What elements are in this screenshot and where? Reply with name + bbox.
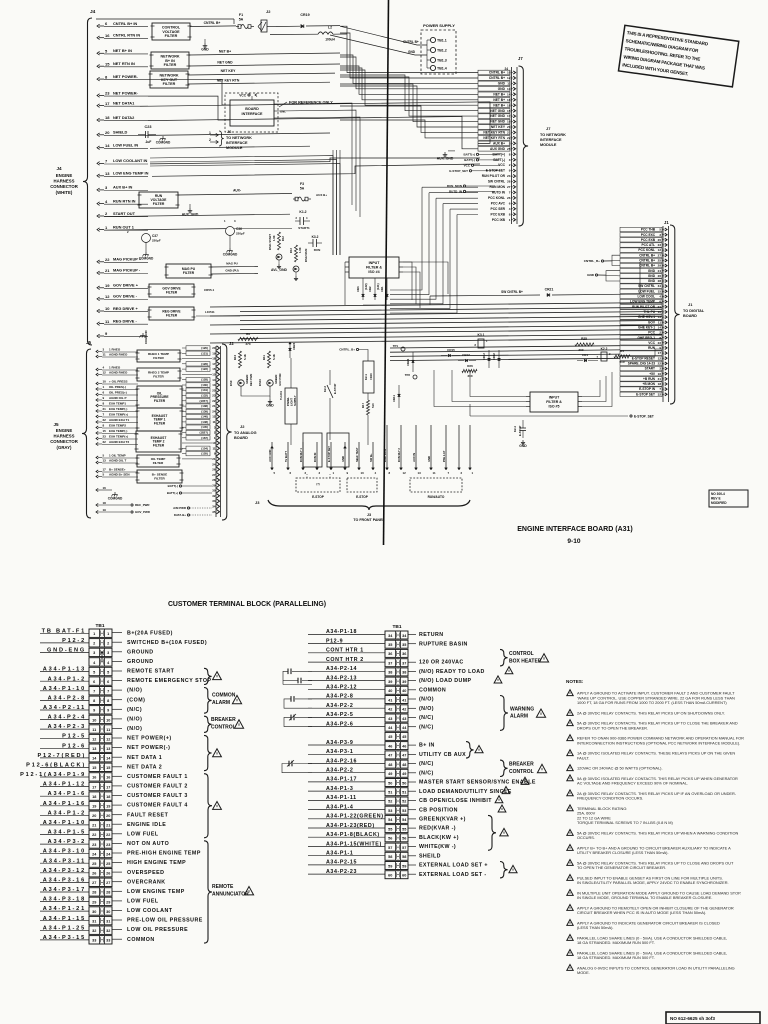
svg-text:FILTER: FILTER [154, 476, 165, 480]
svg-text:7: 7 [107, 690, 109, 694]
inductor L2 [270, 33, 318, 35]
ground AUX GND at J7 [448, 150, 455, 152]
TB1 terminal 14 NET DATA 1 [89, 754, 112, 762]
svg-text:(148): (148) [201, 420, 208, 424]
svg-text:16: 16 [105, 33, 110, 38]
svg-text:AGND RHEO: AGND RHEO [109, 353, 128, 357]
svg-text:AUX_GND: AUX_GND [437, 157, 454, 161]
svg-text:R25: R25 [581, 337, 587, 341]
svg-text:NET B+ IN: NET B+ IN [113, 48, 132, 53]
TB1 terminal 45 terminal [385, 732, 408, 740]
svg-text:NET KEY RTN: NET KEY RTN [483, 131, 505, 135]
svg-text:CONTROL: CONTROL [509, 651, 534, 657]
wire NET POWER 23 to board interface pin [148, 96, 226, 120]
svg-text:30: 30 [92, 910, 96, 914]
wire LOW COOLANT run [150, 158, 480, 164]
svg-text:CB POSITION: CB POSITION [419, 807, 458, 813]
svg-text:9: 9 [93, 709, 95, 713]
svg-text:GREEN: GREEN [274, 375, 278, 384]
left table group brace rows 5-6 [204, 668, 212, 684]
svg-text:9: 9 [509, 169, 511, 173]
svg-text:CUSTOMER FAULT 4: CUSTOMER FAULT 4 [127, 803, 188, 809]
TB1 terminal 6 REMOTE EMERGENCY STOP [89, 677, 112, 685]
J3 underbrace [268, 500, 470, 510]
svg-text:22: 22 [105, 257, 110, 262]
svg-text:ALARM: ALARM [212, 700, 230, 706]
svg-text:3: 3 [93, 651, 95, 655]
svg-text:16: 16 [212, 367, 216, 371]
svg-text:LOW FUEL: LOW FUEL [638, 289, 655, 293]
svg-text:NET DATA1: NET DATA1 [113, 100, 135, 105]
LED DS10 GOV PWR [267, 380, 273, 386]
J4 pin 21 MAG PICKUP - [97, 271, 100, 275]
contact symbol rows 41-42 NO [295, 698, 312, 700]
svg-text:ISO #4: ISO #4 [368, 270, 379, 274]
svg-text:LOW ENG TEMP: LOW ENG TEMP [630, 300, 656, 304]
svg-text:J5: J5 [53, 422, 59, 427]
svg-text:45: 45 [388, 735, 392, 739]
svg-text:40: 40 [388, 689, 392, 693]
svg-text:PCC SER: PCC SER [491, 207, 506, 211]
svg-text:R4: R4 [620, 349, 624, 353]
svg-text:CNTRL B+ IN: CNTRL B+ IN [113, 21, 137, 26]
svg-text:32: 32 [212, 494, 216, 498]
note 15 [567, 905, 573, 911]
svg-text:SW B+: SW B+ [369, 453, 373, 462]
svg-text:10: 10 [361, 471, 365, 475]
svg-text:GND: GND [341, 456, 345, 462]
svg-text:6: 6 [107, 680, 109, 684]
svg-text:CUSTOMER TERMINAL BLOCK (PARAL: CUSTOMER TERMINAL BLOCK (PARALLELING) [168, 601, 326, 608]
J4 pin 9 COMGND [97, 334, 100, 338]
svg-text:(138): (138) [201, 404, 208, 408]
svg-text:18: 18 [658, 382, 662, 386]
svg-text:R12: R12 [281, 236, 285, 241]
TB1 terminal 15 NET DATA 2 [89, 763, 112, 771]
svg-text:WARNING: WARNING [510, 706, 534, 712]
svg-text:28: 28 [212, 478, 216, 482]
svg-text:11: 11 [92, 728, 96, 732]
svg-text:21: 21 [92, 824, 96, 828]
J1 pin 2 PCC [620, 330, 662, 334]
svg-text:22: 22 [103, 440, 107, 444]
svg-text:MODE.: MODE. [577, 970, 590, 975]
svg-text:REG DRIVE +: REG DRIVE + [113, 306, 138, 311]
svg-text:K2.3: K2.3 [323, 386, 327, 392]
svg-text:16: 16 [92, 776, 96, 780]
svg-text:CIRCUIT BREAKER WHEN PCC IS IN: CIRCUIT BREAKER WHEN PCC IS IN AUTO MODE… [577, 910, 706, 915]
svg-text:ANALOG 0-9VDC INPUTS TO CONTRO: ANALOG 0-9VDC INPUTS TO CONTROL GENERATO… [577, 965, 735, 970]
svg-text:J2: J2 [240, 424, 245, 429]
svg-text:PANEL: PANEL [286, 397, 290, 406]
note 2 [567, 710, 573, 716]
J3 pin 7 PNL LGT [445, 425, 447, 468]
note 11 [567, 845, 573, 851]
J3 pin 8 DISP RUN [386, 425, 388, 468]
arrow up AUX GND [271, 446, 274, 448]
svg-text:J6: J6 [227, 130, 231, 134]
svg-text:A/M PWR: A/M PWR [173, 506, 187, 510]
resistor R10 5.1K [239, 351, 242, 368]
J5 pin 9 AGND OIL P [96, 399, 98, 402]
TB1 terminal 37 120 OR 240VAC [385, 659, 408, 667]
svg-text:DROPS OUT TO OPEN THE BREAKER.: DROPS OUT TO OPEN THE BREAKER. [577, 725, 648, 730]
svg-text:5A: 5A [239, 18, 244, 22]
J7 pin 14 NET B+ [478, 92, 510, 97]
svg-text:59: 59 [388, 864, 392, 868]
TB1 terminal 30 LOW COOLANT [89, 907, 112, 915]
svg-text:25: 25 [507, 147, 511, 151]
triangle row53 [498, 805, 506, 812]
svg-text:RUN RTN IN: RUN RTN IN [113, 198, 136, 203]
svg-text:GND: GND [587, 273, 595, 277]
svg-text:HIGH ENGINE TEMP: HIGH ENGINE TEMP [127, 860, 186, 866]
svg-text:E-STOP SET: E-STOP SET [636, 392, 655, 396]
svg-text:DS9: DS9 [229, 380, 233, 386]
svg-text:POWER SUPPLY: POWER SUPPLY [423, 23, 455, 28]
svg-text:RUPTURE BASIN: RUPTURE BASIN [419, 641, 468, 647]
svg-text:FILTER &: FILTER & [546, 400, 562, 404]
svg-text:BATT(+): BATT(+) [167, 491, 178, 495]
bus wires second group [390, 346, 620, 348]
label FOR REFERENCE ONLY [279, 102, 287, 107]
svg-text:12: 12 [507, 76, 511, 80]
svg-text:E-STOP_SET: E-STOP_SET [634, 415, 654, 419]
TB1 terminal 60 EXTERNAL LOAD SET - [385, 871, 408, 879]
svg-text:AGND EXH T1: AGND EXH T1 [109, 418, 130, 422]
svg-text:B+(20A FUSED): B+(20A FUSED) [127, 630, 173, 636]
svg-text:L2: L2 [328, 26, 332, 30]
svg-text:ENGINE INTERFACE BOARD (A31): ENGINE INTERFACE BOARD (A31) [517, 526, 633, 533]
filter CONTROL VOLTAGE FILTER [152, 23, 190, 40]
svg-text:REMOTE START: REMOTE START [127, 669, 175, 675]
svg-text:38: 38 [402, 671, 406, 675]
svg-text:18: 18 [212, 357, 216, 361]
svg-text:CR16: CR16 [369, 373, 373, 380]
svg-text:AUX GND: AUX GND [268, 450, 272, 462]
svg-text:TB1.1: TB1.1 [437, 38, 447, 42]
svg-text:UTILITY CB AUX: UTILITY CB AUX [419, 752, 466, 758]
TB1 terminal 43 (N/C) [385, 714, 408, 722]
svg-text:2: 2 [509, 163, 511, 167]
J3 pin 3 RUN IN [316, 442, 318, 468]
svg-text:53: 53 [402, 809, 406, 813]
note 1 [567, 690, 573, 696]
svg-text:11: 11 [433, 471, 436, 475]
note 17 [567, 935, 573, 941]
svg-text:26: 26 [507, 196, 511, 200]
svg-text:K3.2: K3.2 [312, 235, 319, 239]
svg-text:10: 10 [106, 718, 110, 722]
svg-text:NO 612-6625 sh 3of3: NO 612-6625 sh 3of3 [670, 1016, 715, 1021]
J1 pin 3 START [620, 366, 662, 370]
wire panel light vertical [290, 358, 292, 388]
svg-text:25: 25 [92, 862, 96, 866]
fold line dark vertical [384, 0, 389, 545]
J7 pin 15 NET GND [478, 108, 510, 113]
wire NET KEY RTN out [188, 82, 330, 84]
svg-text:TP2: TP2 [405, 373, 411, 377]
dashed box E-STOP 1 [296, 478, 340, 492]
diode CR12 vertical [488, 350, 490, 368]
J1 pin 12 PCC KONL [620, 248, 662, 252]
svg-text:23: 23 [105, 91, 110, 96]
svg-text:9-10: 9-10 [567, 538, 581, 545]
resistor R9 270 [238, 337, 258, 340]
svg-text:EXH TEMP2: EXH TEMP2 [109, 424, 126, 428]
svg-text:(COM): (COM) [127, 697, 145, 703]
svg-text:6: 6 [509, 201, 511, 205]
svg-text:(N/C): (N/C) [419, 761, 434, 767]
svg-text:10: 10 [658, 310, 662, 314]
svg-text:NET B+: NET B+ [493, 92, 505, 96]
svg-text:32: 32 [658, 392, 662, 396]
svg-text:1.0K: 1.0K [272, 235, 276, 241]
right table brace rows 36-37 [500, 649, 508, 666]
svg-text:FILTER &: FILTER & [366, 266, 382, 270]
svg-text:PCC AVC: PCC AVC [491, 201, 506, 205]
J4 pin 15 NET RTN IN [97, 64, 100, 68]
svg-text:CR82: CR82 [492, 353, 496, 360]
J5 pin 8 EXH TEMP1 [96, 404, 98, 407]
J3 pin 5 AUX GND [271, 442, 273, 468]
svg-text:20: 20 [212, 346, 216, 350]
J3 pin 1 wire [469, 425, 471, 468]
svg-text:TB1.2: TB1.2 [437, 48, 447, 52]
J3 pin 11 GND [430, 425, 432, 468]
svg-text:48: 48 [402, 763, 406, 767]
svg-text:CNTRL B+: CNTRL B+ [489, 76, 505, 80]
svg-text:RUN PILOT OR: RUN PILOT OR [482, 174, 506, 178]
wire NET GND out [189, 64, 340, 66]
svg-text:(N/C): (N/C) [127, 707, 142, 713]
diode CR11 vertical [398, 385, 400, 408]
note 13 [567, 875, 573, 881]
right table brace rows 48-49 [500, 760, 508, 776]
svg-text:23: 23 [658, 243, 662, 247]
J1 pin 3 PCC EXC [620, 233, 662, 237]
svg-text:LOW COOLANT IN: LOW COOLANT IN [113, 158, 148, 163]
J3 pin 6 5V BATT [287, 442, 289, 468]
wire LOW FUEL run [150, 146, 310, 148]
svg-text:BATT(-): BATT(-) [464, 158, 475, 162]
svg-text:PCC KONL: PCC KONL [488, 196, 505, 200]
TB1 terminal 35 RUPTURE BASIN [385, 640, 408, 648]
svg-text:RUN/AUTO: RUN/AUTO [428, 495, 445, 499]
svg-text:CNTRL B+: CNTRL B+ [639, 259, 655, 263]
svg-text:28: 28 [507, 180, 511, 184]
svg-text:FILTER: FILTER [153, 444, 165, 448]
svg-text:1.0K: 1.0K [298, 247, 302, 253]
J1 pin 32 E-STOP SET [620, 392, 662, 396]
TB1 terminal 46 B+ IN [385, 742, 408, 750]
svg-text:21: 21 [103, 407, 107, 411]
J2 brace [222, 344, 232, 520]
svg-text:CONNECTOR: CONNECTOR [50, 439, 79, 444]
svg-text:C37: C37 [152, 234, 158, 238]
svg-text:B+ IN: B+ IN [419, 743, 435, 749]
svg-text:RUN OUT 1: RUN OUT 1 [113, 224, 135, 229]
svg-text:22: 22 [507, 136, 511, 140]
svg-text:AGND RHEO: AGND RHEO [109, 371, 128, 375]
svg-text:17: 17 [106, 785, 110, 789]
svg-text:29: 29 [212, 483, 216, 487]
svg-text:26: 26 [106, 872, 110, 876]
TB1 terminal 38 (N/O) READY TO LOAD [385, 668, 408, 676]
svg-text:12: 12 [658, 248, 662, 252]
wire NET POWER to board interface pin [148, 80, 226, 105]
filter OIL TEMP FILTER [137, 455, 179, 467]
svg-text:7: 7 [509, 191, 511, 195]
svg-text:NET POWER-: NET POWER- [113, 74, 139, 79]
svg-text:22: 22 [212, 399, 216, 403]
svg-text:AUX B+: AUX B+ [316, 193, 327, 197]
svg-text:2: 2 [107, 642, 109, 646]
svg-text:510: 510 [619, 360, 624, 364]
note 3 [567, 720, 573, 726]
svg-text:35: 35 [212, 510, 216, 514]
note 9 [567, 805, 573, 811]
svg-text:11: 11 [106, 728, 110, 732]
J1 pin 16 +5V [620, 372, 662, 376]
svg-text:BREAKER: BREAKER [509, 762, 534, 768]
svg-text:CONNECTOR: CONNECTOR [50, 184, 79, 189]
svg-text:FILTER: FILTER [166, 291, 178, 295]
svg-text:7: 7 [93, 690, 95, 694]
svg-text:1 RHEO: 1 RHEO [109, 366, 121, 370]
svg-text:COMGND: COMGND [144, 330, 148, 344]
svg-text:LOW COOL: LOW COOL [637, 295, 655, 299]
svg-text:13: 13 [507, 87, 511, 91]
J4 pin 14 LOW FUEL IN [97, 146, 100, 150]
svg-text:26: 26 [658, 274, 662, 278]
J4 pin 7 LOW COOLANT IN [97, 162, 100, 166]
svg-text:5: 5 [509, 142, 511, 146]
svg-text:12: 12 [658, 356, 662, 360]
right table brace rows 41-44 [500, 696, 508, 731]
svg-text:(155): (155) [201, 452, 208, 456]
J1 brace [670, 225, 680, 404]
TB1 terminal 50 MASTER START SENSOR/SYNC ENABLE [385, 779, 408, 787]
wire SHIELD run [148, 133, 330, 135]
test point TP1 [401, 347, 405, 351]
svg-text:K2.4: K2.4 [513, 426, 517, 432]
svg-text:ENGINE: ENGINE [56, 173, 73, 178]
svg-text:20: 20 [106, 814, 110, 818]
svg-text:18: 18 [103, 501, 107, 505]
svg-text:5: 5 [93, 670, 95, 674]
svg-text:GOV PWR: GOV PWR [278, 373, 282, 386]
svg-text:(139): (139) [201, 409, 208, 413]
svg-text:1 RHEO: 1 RHEO [109, 348, 121, 352]
TB1 terminal 23 NOT ON AUTO [89, 840, 112, 848]
svg-text:GND: GND [498, 82, 506, 86]
svg-text:(GRAY): (GRAY) [57, 445, 72, 450]
J1 pin 25 CNTRL B+ [620, 258, 662, 262]
svg-text:FILTER: FILTER [153, 202, 165, 206]
J1 pin 31 +B RUN [620, 377, 662, 381]
svg-text:31: 31 [92, 919, 96, 923]
svg-text:BLACK(KW +): BLACK(KW +) [419, 835, 459, 841]
J5 pin 12 AGND RHEO [96, 373, 98, 376]
svg-text:CR17: CR17 [462, 353, 470, 357]
svg-text:53: 53 [388, 809, 392, 813]
J5 pin 17 B+ SENSE+ [96, 470, 98, 473]
svg-text:.1uF: .1uF [145, 140, 152, 144]
svg-text:(182?): (182?) [199, 431, 208, 435]
J3 pin 13 AUX IN [415, 425, 417, 468]
svg-text:DS11 START: DS11 START [268, 234, 272, 250]
J7 pin 10 CNTRL B+ [478, 70, 510, 75]
svg-text:BATT(+): BATT(+) [463, 153, 475, 157]
svg-text:INTERCONNECTION INSTRUCTIONS (: INTERCONNECTION INSTRUCTIONS (OPTIONAL P… [577, 740, 740, 745]
filter EXHAUST TEMP 2 FILTER [136, 431, 181, 452]
TB1 terminal 52 CB OPEN/CLOSE INHIBIT [385, 797, 408, 805]
J1 pin 21 RUN PILOT OR [620, 305, 662, 309]
filter RHEO 1 TEMP FILTER [137, 350, 180, 362]
TB1 terminal 5 REMOTE START [89, 667, 112, 675]
svg-text:17: 17 [92, 785, 96, 789]
svg-text:START: START [645, 367, 655, 371]
mag pickup filter [166, 264, 211, 278]
ground COMGND below C36 [229, 248, 231, 251]
svg-text:AUX B+: AUX B+ [493, 142, 505, 146]
svg-text:56: 56 [388, 837, 392, 841]
svg-text:19: 19 [507, 120, 511, 124]
svg-text:41: 41 [402, 698, 406, 702]
wire gnd pu out [211, 272, 258, 275]
svg-text:(145): (145) [201, 425, 208, 429]
svg-text:23: 23 [103, 435, 107, 439]
svg-text:(120): (120) [201, 346, 208, 350]
svg-text:CR23: CR23 [292, 342, 296, 350]
svg-text:34: 34 [658, 284, 662, 288]
svg-text:RUN PILOT OR: RUN PILOT OR [632, 305, 656, 309]
svg-text:21: 21 [212, 404, 216, 408]
J3 pin 9 GND [344, 442, 346, 468]
svg-text:CNTRL_B+: CNTRL_B+ [339, 348, 355, 352]
svg-text:F1: F1 [239, 13, 243, 17]
TB1 terminal 12 NET POWER(+) [89, 734, 112, 742]
J4 pin 8 NET POWER- [97, 77, 100, 81]
svg-text:EXH TEMP1: EXH TEMP1 [109, 402, 126, 406]
svg-text:11: 11 [103, 353, 107, 357]
J1 pin 6 LOW ENG TEMP [620, 299, 662, 303]
svg-text:TO FRONT PANEL: TO FRONT PANEL [353, 518, 385, 522]
wire SW CNTRL B+ with diode CR21 [430, 295, 540, 296]
svg-text:OIL PRES(+): OIL PRES(+) [109, 391, 127, 395]
left table group brace rows 16-22 [204, 774, 212, 838]
svg-text:(N/O): (N/O) [419, 697, 434, 703]
svg-text:6: 6 [93, 680, 95, 684]
svg-text:16: 16 [658, 372, 662, 376]
svg-text:FILTER: FILTER [153, 356, 164, 360]
svg-text:TB1: TB1 [95, 623, 104, 629]
svg-text:2: 2 [93, 642, 95, 646]
svg-text:50: 50 [402, 781, 406, 785]
svg-text:AUX IN: AUX IN [412, 453, 416, 462]
module BOARD INTERFACE dashed for-reference box [225, 93, 278, 132]
svg-text:HARNESS: HARNESS [53, 179, 74, 184]
svg-text:FILTER: FILTER [164, 63, 177, 67]
svg-text:17: 17 [658, 351, 662, 355]
TB1 terminal 36 terminal [385, 649, 408, 657]
svg-text:TORQUE TERMINAL SCREWS TO 7 IN: TORQUE TERMINAL SCREWS TO 7 IN-LBS (0.8 … [577, 820, 673, 825]
filter OIL PRESSURE FILTER [137, 386, 182, 408]
svg-text:51: 51 [402, 791, 406, 795]
J3 pin 4 SW B+ [372, 442, 374, 468]
filter RUN VOLTAGE FILTER [139, 192, 178, 208]
